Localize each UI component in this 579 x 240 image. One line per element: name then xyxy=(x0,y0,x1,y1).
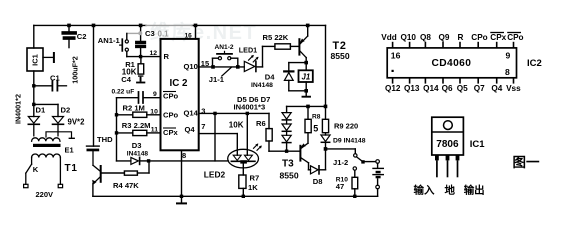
svg-text:8550: 8550 xyxy=(280,170,299,180)
svg-text:J1-1: J1-1 xyxy=(209,75,225,84)
svg-text:10K: 10K xyxy=(229,120,244,129)
svg-text:9: 9 xyxy=(153,91,157,98)
svg-text:Q14: Q14 xyxy=(423,84,439,93)
node: R3 left xyxy=(115,131,118,134)
svg-text:100uF*2: 100uF*2 xyxy=(71,56,80,84)
node: pin15 right xyxy=(236,65,240,69)
svg-text:R5 22K: R5 22K xyxy=(263,33,289,42)
svg-text:Q10: Q10 xyxy=(184,62,198,71)
svg-text:AN1-1: AN1-1 xyxy=(98,36,121,45)
resistor R7 xyxy=(239,175,246,188)
diodes D5 D6 D7 chain xyxy=(282,113,291,120)
wire: AN1-2 elbow left xyxy=(212,58,214,67)
wire: R6 branch xyxy=(268,113,270,128)
svg-text:D2: D2 xyxy=(61,106,71,115)
wire: R7 bottom lead xyxy=(242,188,244,196)
wire: LED2 right anode drop from pin3 xyxy=(246,113,248,155)
wire: J1-2 arm node to battery xyxy=(365,161,376,163)
svg-text:T3: T3 xyxy=(282,159,294,170)
battery GB xyxy=(376,160,380,164)
7806 legs xyxy=(435,155,439,160)
220V terminal left xyxy=(24,184,28,187)
node: C3 top (faded junction) xyxy=(138,31,142,35)
resistor R5 xyxy=(275,44,291,49)
resistor R9 xyxy=(322,119,328,132)
svg-text:Q7: Q7 xyxy=(474,84,485,93)
svg-text:IC1: IC1 xyxy=(470,139,486,150)
wire: LED2 to R7 xyxy=(242,163,244,175)
wire: LED1 to R5 riser xyxy=(256,66,262,68)
7806 package drawing xyxy=(414,117,541,196)
LED2 dual LED circle xyxy=(228,149,259,168)
node: C2 top xyxy=(67,24,71,28)
resistor R1 xyxy=(138,64,144,74)
svg-text:Vdd: Vdd xyxy=(381,33,396,42)
capacitor C1 xyxy=(34,85,52,87)
wire: T3 emitter to D8 xyxy=(308,163,310,170)
IC1 ground pin with terminal bar xyxy=(43,56,53,58)
resistor R2 xyxy=(133,112,147,117)
svg-text:D1: D1 xyxy=(36,106,46,115)
wire: AN1-1 to C3 node (faded) xyxy=(128,32,139,34)
capacitor C4 series symbol under R1 xyxy=(138,75,143,76)
svg-text:图一: 图一 xyxy=(513,155,541,170)
svg-text:15: 15 xyxy=(201,59,209,68)
wire: R9 top lead xyxy=(325,106,327,119)
svg-text:1K: 1K xyxy=(248,183,258,192)
resistor R3 xyxy=(133,130,147,135)
switch K arm xyxy=(26,164,32,173)
svg-text:地: 地 xyxy=(445,184,456,197)
svg-text:3: 3 xyxy=(201,107,205,116)
wire: R4 right lead up to D3 node xyxy=(137,172,149,174)
wire: R9 to D9 xyxy=(325,133,327,135)
node: R1 top xyxy=(139,55,142,58)
svg-text:AN1-2: AN1-2 xyxy=(215,44,234,51)
transistor T1 xyxy=(100,166,102,182)
pinout top pin stubs xyxy=(393,42,514,48)
node: J1 bottom xyxy=(304,89,308,93)
svg-text:9: 9 xyxy=(506,51,511,61)
wire: D4 top lead xyxy=(288,63,290,72)
wire: AN1-1 leads xyxy=(126,33,128,40)
svg-text:IN4001*2: IN4001*2 xyxy=(14,94,23,124)
wire: terminal stub under J1 xyxy=(305,91,307,96)
svg-text:16: 16 xyxy=(185,33,193,40)
svg-text:CPo: CPo xyxy=(471,33,487,42)
svg-text:D8: D8 xyxy=(313,177,323,186)
svg-text:7806: 7806 xyxy=(436,139,459,150)
wire: D5 chain top lead xyxy=(286,106,288,112)
piezo sounder THD xyxy=(87,145,100,147)
wire: riser from pin3 node to cathode line xyxy=(214,113,216,160)
wire: R10 bottom lead xyxy=(354,189,356,197)
svg-text:R7: R7 xyxy=(250,174,260,183)
diode D4 xyxy=(284,70,293,72)
transformer center tap xyxy=(46,132,72,138)
node: IC1 out / C1 xyxy=(32,84,35,87)
svg-text:Q12: Q12 xyxy=(385,84,401,93)
diode D1 xyxy=(28,117,39,124)
svg-text:10: 10 xyxy=(150,109,158,116)
diode D8 xyxy=(311,166,319,174)
svg-text:220V: 220V xyxy=(36,190,54,199)
wire: J1 top row xyxy=(289,62,306,64)
svg-text:R: R xyxy=(164,52,170,61)
wire: R3 row pin11 xyxy=(117,132,133,134)
svg-text:Q6: Q6 xyxy=(442,84,453,93)
svg-text:IC1: IC1 xyxy=(31,54,40,66)
wire: D9 bottom lead xyxy=(325,144,327,149)
wire: +V bus to THD xyxy=(93,25,95,146)
svg-text:12: 12 xyxy=(150,50,158,57)
LED2 arrows xyxy=(254,144,258,148)
svg-text:R3 2.2M: R3 2.2M xyxy=(122,121,151,130)
svg-text:IC2: IC2 xyxy=(527,58,542,69)
svg-text:R4 47K: R4 47K xyxy=(113,181,139,190)
diode D2 xyxy=(53,117,64,124)
wire: R1 top lead xyxy=(140,57,142,64)
node: T2 collector / J1 top xyxy=(304,61,308,65)
svg-text:CD4060: CD4060 xyxy=(432,58,472,69)
wire: T2 emitter riser to rail xyxy=(307,25,309,36)
svg-text:K: K xyxy=(33,165,39,174)
svg-text:J1-2: J1-2 xyxy=(333,158,348,167)
svg-text:CPo: CPo xyxy=(163,92,179,101)
svg-text:C1: C1 xyxy=(50,74,60,83)
svg-text:IN4148: IN4148 xyxy=(251,82,273,89)
svg-text:C2: C2 xyxy=(77,32,87,41)
wire: primary right side down xyxy=(59,158,61,185)
svg-text:Vss: Vss xyxy=(506,84,521,93)
wire: D8 to riser xyxy=(319,169,325,171)
wire: D7 bottom lead xyxy=(286,143,288,151)
svg-text:C4: C4 xyxy=(121,75,131,84)
wire: pin3 row xyxy=(199,112,269,114)
wire: battery leads xyxy=(377,163,379,168)
svg-text:E1: E1 xyxy=(65,146,74,155)
svg-text:CPo: CPo xyxy=(163,111,179,120)
svg-text:C3: C3 xyxy=(145,29,155,38)
wire: LED2 left anode drop from pin7 xyxy=(199,133,238,135)
IC2 pinout box xyxy=(387,48,516,78)
wire: bottom ground rail xyxy=(93,195,378,197)
LED1 arrows xyxy=(249,56,254,61)
resistor R4 xyxy=(124,171,137,175)
LED LED1 xyxy=(244,61,255,71)
transistor T2 xyxy=(298,39,300,54)
wire: J1-2 feed xyxy=(326,148,356,150)
node: pin16 rail xyxy=(194,24,198,28)
svg-text:Q10: Q10 xyxy=(401,33,417,42)
svg-text:9V*2: 9V*2 xyxy=(68,118,86,127)
relay contact J1-2 xyxy=(354,154,357,157)
svg-text:R6: R6 xyxy=(256,119,266,128)
pin1 dot marker xyxy=(392,70,394,72)
wire: C3 / pin16 branch leads xyxy=(140,25,142,42)
node: D1 D2 split xyxy=(32,103,35,106)
node: J1-2 arm xyxy=(361,160,364,163)
svg-text:R9 220: R9 220 xyxy=(334,122,358,131)
svg-text:8: 8 xyxy=(182,151,186,160)
terminal bar under J1 node xyxy=(303,96,311,98)
svg-text:D3: D3 xyxy=(132,141,142,150)
220V terminal right xyxy=(58,184,62,187)
IC2 box xyxy=(161,39,199,150)
wire: D3 node to LED2 cathode line xyxy=(149,160,229,162)
resistor R10 xyxy=(352,177,358,189)
wire: R10 top lead xyxy=(354,170,356,177)
svg-text:7: 7 xyxy=(201,122,205,131)
wire: D4 bottom lead xyxy=(288,80,290,90)
svg-text:THD: THD xyxy=(97,135,113,144)
svg-text:Q4: Q4 xyxy=(491,84,502,93)
svg-text:11: 11 xyxy=(151,126,158,133)
svg-text:Q13: Q13 xyxy=(404,84,420,93)
resistor R6 xyxy=(266,129,272,141)
wire: C2 leads xyxy=(68,25,70,32)
wire: J1 coil top lead xyxy=(305,63,307,71)
svg-text:8: 8 xyxy=(505,67,510,77)
pushbutton AN1-1 xyxy=(125,40,128,43)
node: R7 ground xyxy=(242,195,245,198)
svg-text:输入: 输入 xyxy=(414,184,435,197)
svg-text:T2: T2 xyxy=(333,40,347,52)
transistor T3 xyxy=(299,146,301,161)
svg-text:D4: D4 xyxy=(265,73,275,82)
diode D3 xyxy=(131,157,139,164)
node: +V bus top xyxy=(92,24,96,28)
transformer core xyxy=(33,144,61,147)
svg-text:Q8: Q8 xyxy=(420,33,431,42)
svg-text:Q9: Q9 xyxy=(439,33,450,42)
diode D9 xyxy=(321,135,330,142)
LED2 internal diodes xyxy=(233,155,241,160)
node: R10 ground xyxy=(353,195,356,198)
wire: primary left side to switch K xyxy=(31,158,33,165)
node: D3 / R4 xyxy=(147,159,150,162)
wire: T2 collector drop xyxy=(305,58,307,63)
wire: IC1 input riser xyxy=(33,25,35,48)
wire: D2 branch xyxy=(34,103,58,105)
7806 body xyxy=(432,117,464,155)
capacitor C3 xyxy=(136,42,146,44)
node: pin8 ground xyxy=(180,195,183,198)
wire: y106 distribution row xyxy=(287,105,326,107)
wire: AN1-2 elbow right xyxy=(231,57,238,59)
svg-text:Q5: Q5 xyxy=(457,84,468,93)
svg-text:R8: R8 xyxy=(312,113,321,120)
node: pin3 riser xyxy=(213,112,216,115)
wire: pin12 row xyxy=(127,56,161,58)
ground symbol under IC2 pin8 xyxy=(181,196,183,203)
wire: left bus x116 xyxy=(116,98,118,161)
svg-text:J1: J1 xyxy=(302,73,311,82)
svg-text:CPo: CPo xyxy=(507,33,523,42)
resistor R8 xyxy=(305,119,311,132)
pushbutton AN1-2 xyxy=(218,57,221,60)
node: pin3 LED2 xyxy=(246,112,249,115)
svg-text:0.22 uF: 0.22 uF xyxy=(112,89,135,96)
wire: J1 bottom row xyxy=(289,90,306,92)
wire: C4 row to pin9 xyxy=(117,97,138,99)
svg-text:R2 1M: R2 1M xyxy=(123,104,145,113)
svg-text:5: 5 xyxy=(313,124,318,134)
wire: D3 row xyxy=(117,160,131,162)
wire: R2 row pin10 xyxy=(117,114,133,116)
relay contact J1-1 arm xyxy=(222,67,232,76)
svg-text:LED1: LED1 xyxy=(239,45,257,54)
capacitor C4 plates xyxy=(138,92,140,103)
node: D5 chain bottom xyxy=(285,150,288,153)
wire: T1 emitter drop xyxy=(92,184,94,197)
wire: THD bottom to T1 collector xyxy=(92,151,94,165)
node: pin15 left xyxy=(211,65,215,69)
svg-text:IN4148: IN4148 xyxy=(127,150,149,157)
transformer primary winding xyxy=(32,154,61,158)
CD4060 pinout block xyxy=(381,33,541,94)
svg-text:8550: 8550 xyxy=(331,51,350,61)
wire: IC1 output down to D1/D2 node xyxy=(33,71,35,117)
pinout bottom pin stubs xyxy=(393,78,514,84)
svg-text:47: 47 xyxy=(336,182,344,191)
node: D9 bottom xyxy=(324,147,328,151)
svg-text:Q14: Q14 xyxy=(184,109,199,118)
relay coil J1 xyxy=(299,70,313,82)
svg-text:输出: 输出 xyxy=(464,184,485,197)
wire: D8 riser xyxy=(325,149,327,170)
node: C3 top rail xyxy=(139,24,143,28)
svg-text:IN4001*3: IN4001*3 xyxy=(234,103,266,112)
wire: R8 to T3 collector xyxy=(307,133,309,144)
wire: T1 base row xyxy=(102,172,125,174)
wire: R8 top lead xyxy=(307,106,309,119)
svg-text:D9 IN4148: D9 IN4148 xyxy=(333,137,366,144)
svg-text:Q4: Q4 xyxy=(185,125,196,134)
svg-text:R: R xyxy=(458,33,464,42)
wire: right rail from top corner down xyxy=(325,25,327,106)
svg-text:T1: T1 xyxy=(65,163,78,174)
wire: R5 row xyxy=(263,45,275,47)
wire: top +V rail xyxy=(34,24,146,26)
node: T2 emitter rail xyxy=(306,24,310,28)
svg-text:LED2: LED2 xyxy=(204,169,226,179)
7806 mounting hole xyxy=(444,121,453,130)
node: R8 top xyxy=(306,105,310,109)
wire: pin15 row xyxy=(199,66,245,68)
capacitor C2 xyxy=(62,32,76,34)
wire: T3 base row xyxy=(269,150,300,152)
svg-text:16: 16 xyxy=(391,51,401,61)
svg-text:IC 2: IC 2 xyxy=(170,78,189,89)
transformer B1 secondary winding xyxy=(32,138,60,141)
wire: IC2 pin8 ground lead xyxy=(181,150,183,196)
wire: J1 coil bottom lead xyxy=(305,82,307,91)
svg-text:CPx: CPx xyxy=(163,128,179,137)
IC1 regulator box xyxy=(27,48,43,71)
svg-text:CPx: CPx xyxy=(490,33,506,42)
node: R2 left xyxy=(115,113,118,116)
node: rail y106 xyxy=(324,105,328,109)
svg-text:0.1: 0.1 xyxy=(158,29,170,38)
